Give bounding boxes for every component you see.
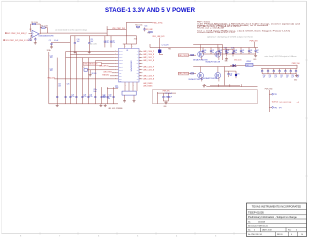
svg-text:LMK_SYNC: LMK_SYNC [103, 72, 112, 74]
svg-text:TIDEP-01005: TIDEP-01005 [248, 210, 264, 214]
3V3 bus caps [202, 48, 204, 51]
mid cluster [156, 92, 158, 104]
op-amp output wire [39, 33, 40, 35]
IC left pin stubs [114, 51, 118, 53]
svg-text:VDD_LMK_3V3: VDD_LMK_3V3 [152, 36, 164, 38]
svg-text:C54: C54 [286, 75, 289, 77]
svg-text:VDDO0: VDDO0 [119, 63, 123, 65]
wire pin p2 [70, 54, 114, 56]
wire y22.4 net PMIC [126, 21, 152, 23]
input net label PMIC_3V3_SNS_N [4, 40, 5, 41]
svg-text:PWR_EN: PWR_EN [163, 90, 171, 92]
svg-text:VD2: VD2 [136, 72, 139, 74]
row2 caps C19 C20 [228, 71, 230, 74]
pad grounds [124, 95, 126, 99]
svg-text:STAGE-1 3.3V AND 5 V POWER: STAGE-1 3.3V AND 5 V POWER [105, 7, 196, 14]
svg-text:1uF: 1uF [280, 77, 282, 79]
svg-text:C32: C32 [103, 94, 106, 96]
svg-text:10u: 10u [212, 52, 214, 54]
bottom ground rail [49, 103, 118, 105]
svg-text:10u: 10u [235, 52, 237, 54]
svg-text:C38 0.1uF: C38 0.1uF [165, 97, 172, 99]
svg-text:x 8: x 8 [297, 102, 299, 104]
5V main wire [230, 65, 298, 67]
svg-text:1uF: 1uF [263, 77, 265, 79]
group box [152, 90, 257, 104]
ferrite bead FB3 [158, 50, 161, 53]
svg-text:SEL1: SEL1 [119, 78, 122, 80]
svg-text:C51: C51 [269, 75, 272, 77]
sheet border frame [2, 0, 307, 2]
svg-text:C9: C9 [49, 40, 51, 42]
wire pin p1 [66, 51, 115, 53]
svg-text:SEL0: SEL0 [119, 75, 122, 77]
wire to op-amp - input [30, 39, 31, 41]
svg-text:LM8261M5X/NOPB: LM8261M5X/NOPB [39, 36, 55, 38]
svg-text:C53: C53 [280, 75, 283, 77]
wire pin p4 [95, 60, 114, 62]
rail left drop [69, 36, 71, 55]
svg-text:0.1u: 0.1u [112, 42, 115, 44]
svg-text:C10: C10 [77, 39, 80, 41]
svg-text:Net Details TIDEP-01-D1: Net Details TIDEP-01-D1 [248, 225, 268, 228]
svg-text:0.1u: 0.1u [89, 96, 92, 98]
wire near pad [107, 87, 118, 89]
buffer U5 [198, 51, 204, 57]
svg-text:LMK_STAT1: LMK_STAT1 [143, 84, 152, 87]
svg-text:1uF: 1uF [269, 77, 271, 79]
gnd near wire [203, 84, 205, 86]
svg-text:REV B: REV B [277, 234, 283, 236]
svg-text:GND: GND [119, 80, 122, 82]
svg-text:3V3_CLK0: 3V3_CLK0 [234, 60, 241, 62]
svg-text:C37 0.1uF: C37 0.1uF [165, 93, 172, 95]
svg-text:C52: C52 [274, 75, 277, 77]
svg-text:0.1u: 0.1u [83, 96, 86, 98]
svg-text:L2 2.2uH: L2 2.2uH [162, 45, 169, 47]
svg-text:GND: GND [163, 106, 166, 108]
svg-text:1uF: 1uF [297, 77, 299, 79]
svg-text:U1: U1 [126, 50, 128, 52]
IC right pin stubs [139, 51, 142, 53]
svg-text:C33: C33 [109, 94, 112, 96]
svg-text:C24: C24 [50, 68, 53, 70]
svg-text:C14: C14 [106, 40, 109, 42]
svg-text:U4: U4 [246, 65, 248, 67]
svg-text:10u: 10u [220, 52, 222, 54]
svg-text:0.1uF: 0.1uF [28, 40, 32, 42]
svg-text:3V3 PMIC_3V3_SNS_P: 3V3 PMIC_3V3_SNS_P [7, 33, 28, 35]
3V3 gnd bus [203, 53, 256, 55]
svg-text:4: 4 [291, 234, 292, 236]
wire pin p7 [90, 69, 114, 71]
title block frame [247, 203, 307, 237]
svg-text:VDD_LMK33_3V3: VDD_LMK33_3V3 [84, 64, 97, 66]
svg-text:C29: C29 [83, 94, 86, 96]
svg-text:+: + [33, 33, 34, 35]
column C23 3V3A [48, 52, 50, 104]
row1 top wire [193, 44, 222, 46]
IC bottom pin stubs [124, 82, 126, 91]
svg-text:2010548: 2010548 [258, 221, 265, 223]
bottom caps columns [56, 58, 58, 104]
svg-text:LMK_CLK0_P: LMK_CLK0_P [143, 51, 155, 53]
svg-text:−: − [33, 36, 34, 38]
5V gnd bus [262, 73, 296, 75]
svg-text:LMK_CLK0_N: LMK_CLK0_N [143, 54, 155, 56]
row2 top wire [193, 66, 222, 68]
svg-text:FB3: FB3 [168, 48, 171, 50]
svg-text:1uF: 1uF [230, 75, 232, 77]
svg-text:3V3 PMIC_3V3_SNS_N OUT: 3V3 PMIC_3V3_SNS_N OUT [5, 40, 31, 42]
svg-text:LMK_CLK3_P: LMK_CLK3_P [143, 75, 155, 77]
crystal Y2 cluster [84, 69, 87, 72]
TP vertical [268, 90, 270, 112]
svg-text:10: 10 [301, 234, 303, 236]
svg-text:16V: 16V [50, 70, 53, 72]
svg-text:4: 4 [254, 230, 255, 232]
svg-text:C26: C26 [67, 84, 70, 86]
svg-text:4: 4 [296, 230, 297, 232]
svg-text:16V: 16V [58, 85, 61, 87]
5V bus caps [261, 69, 263, 71]
svg-text:GND: GND [253, 59, 256, 61]
svg-text:C25: C25 [58, 84, 61, 86]
svg-text:C27: C27 [71, 94, 74, 96]
thermal pad box [122, 91, 136, 95]
svg-text:C15: C15 [112, 40, 115, 42]
svg-text:TP5: TP5 [274, 94, 277, 96]
svg-text:No. PML 2017-05: No. PML 2017-05 [248, 234, 262, 236]
svg-text:C11: C11 [90, 39, 93, 41]
svg-text:C8: C8 [29, 38, 31, 40]
svg-text:C21: C21 [237, 73, 240, 75]
TP6 TP7 [272, 107, 274, 109]
feedback wire [30, 24, 32, 32]
svg-text:1uF: 1uF [291, 77, 293, 79]
svg-text:Rev: Rev [288, 230, 291, 232]
LDO U4 label box [246, 63, 253, 66]
svg-text:DATE: 2018: DATE: 2018 [262, 229, 272, 232]
buffer U6 [215, 51, 221, 57]
svg-text:PMIC_SYNC: PMIC_SYNC [153, 22, 164, 24]
net label box VDD_LMK33 [83, 62, 101, 65]
wire y86.6 stubs [207, 86, 258, 88]
svg-text:3V3_LMK: 3V3_LMK [146, 29, 154, 31]
svg-text:C55: C55 [291, 75, 294, 77]
vertical feed x65.6 [65, 52, 67, 104]
svg-text:10uF: 10uF [93, 91, 96, 93]
svg-text:10u: 10u [250, 52, 252, 54]
svg-text:C30: C30 [89, 94, 92, 96]
buffer U7 [198, 73, 204, 79]
svg-text:0.1u: 0.1u [109, 96, 112, 98]
svg-text:C50: C50 [263, 75, 266, 77]
svg-text:0.1u: 0.1u [103, 96, 106, 98]
row1 caps C17 C18 [226, 49, 228, 52]
svg-text:PWR_5V0: PWR_5V0 [292, 63, 300, 65]
row2 bottom wire [210, 85, 240, 87]
diode D1 [233, 64, 236, 67]
svg-text:VD1: VD1 [136, 63, 139, 65]
svg-text:LMK_CLK1_P: LMK_CLK1_P [143, 57, 155, 59]
svg-text:C23: C23 [50, 55, 53, 57]
svg-text:10u: 10u [256, 52, 258, 54]
svg-text:CLKin0: CLKin0 [119, 51, 123, 53]
svg-text:VDD: VDD [119, 72, 122, 74]
top rail 3V3 [70, 35, 136, 37]
svg-text:LMK_GPIO0: LMK_GPIO0 [99, 65, 108, 67]
svg-text:LMK_CLK1_N: LMK_CLK1_N [143, 60, 155, 62]
svg-text:GND: GND [294, 79, 297, 81]
svg-text:LMK_CLK2_P: LMK_CLK2_P [143, 66, 155, 68]
svg-text:10u: 10u [242, 52, 244, 54]
svg-text:C16: C16 [144, 26, 147, 28]
svg-text:LMK_CLK3_N: LMK_CLK3_N [143, 78, 155, 80]
svg-text:10u: 10u [204, 52, 206, 54]
svg-text:16V: 16V [50, 57, 53, 59]
svg-text:LMK00304PWR: LMK00304PWR [130, 61, 132, 73]
svg-text:5015_KEYSTONE: 5015_KEYSTONE [279, 102, 291, 104]
row1 right vertical [222, 45, 224, 61]
svg-text:PWR_3V3: PWR_3V3 [250, 40, 258, 42]
svg-text:LMK_STAT0: LMK_STAT0 [143, 82, 152, 85]
svg-text:GND: GND [225, 61, 228, 63]
svg-text:0.1uF: 0.1uF [54, 40, 58, 42]
svg-text:TP7: TP7 [279, 107, 282, 109]
op-amp U2 [32, 30, 39, 37]
bottom rail grounds [56, 104, 58, 106]
svg-text:R8 100: R8 100 [92, 73, 97, 75]
svg-text:Preliminary Information - Subj: Preliminary Information - Subject to cha… [248, 215, 297, 219]
rail to IC top pins [123, 43, 137, 45]
wire y29.5 net label [107, 29, 126, 31]
svg-text:LP5907: LP5907 [246, 61, 251, 63]
svg-text:LMK_CLK2_N: LMK_CLK2_N [143, 69, 155, 71]
svg-text:CLKin1: CLKin1 [119, 54, 123, 56]
svg-text:1uF: 1uF [274, 77, 276, 79]
input net label PMIC_3V3_SNS_P [5, 33, 6, 34]
svg-text:TEXAS INSTRUMENTS INCORPORATED: TEXAS INSTRUMENTS INCORPORATED [252, 205, 302, 209]
svg-text:0.1u: 0.1u [71, 96, 74, 98]
IC top pin stubs [123, 44, 125, 48]
svg-text:0.1u: 0.1u [106, 42, 109, 44]
svg-text:TP6: TP6 [274, 107, 277, 109]
wire pin p3 [66, 57, 115, 59]
row2 right vertical [223, 66, 237, 68]
3V3 bus upper [150, 47, 258, 49]
5V sub bus [261, 68, 297, 70]
buffer U8 [215, 73, 221, 79]
svg-text:OSCin: OSCin [119, 57, 123, 59]
row2 tantalum C21 [235, 71, 237, 74]
svg-text:Y2: Y2 [83, 67, 85, 69]
svg-text:1uF: 1uF [286, 77, 288, 79]
wire to op-amp + input [29, 32, 33, 34]
TP5 [272, 93, 274, 95]
wire from C9 to rail drop [52, 41, 71, 43]
svg-text:PWR_GND: PWR_GND [265, 89, 274, 91]
svg-text:10u: 10u [227, 52, 229, 54]
svg-text:PMP # 30105: PMP # 30105 [197, 21, 210, 23]
IC U1 LMK00304 body [118, 48, 139, 82]
svg-text:VDD_PMIC_3V3: VDD_PMIC_3V3 [112, 28, 125, 30]
